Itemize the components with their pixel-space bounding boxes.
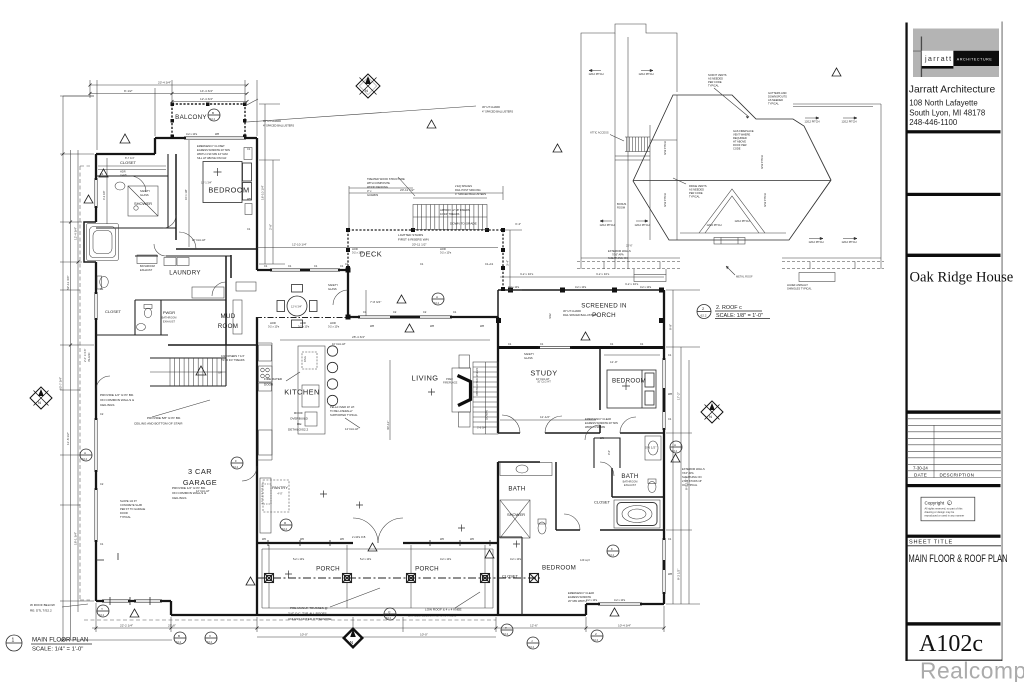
svg-text:62.2: 62.2 [207,640,213,644]
svg-text:CEILINGS: CEILINGS [172,496,186,500]
svg-text:3-2 x 10's: 3-2 x 10's [186,132,198,136]
svg-text:25'-8": 25'-8" [168,624,176,628]
svg-text:22'-2 1/4": 22'-2 1/4" [120,624,133,628]
svg-text:SHOWER: SHOWER [507,512,525,517]
svg-text:2 x10's O.B: 2 x10's O.B [352,535,366,539]
svg-text:PER CODE: PER CODE [708,80,722,84]
svg-text:SHEATHING ON: SHEATHING ON [608,256,628,260]
svg-text:FIRST 6 RISERS W/N: FIRST 6 RISERS W/N [398,238,429,242]
fireplace [443,355,471,427]
svg-text:C1: C1 [247,227,251,231]
svg-text:20'-11 1/2": 20'-11 1/2" [412,243,427,247]
roof outer boundary left block [581,24,881,269]
circled ref 2 bottom right [591,630,603,642]
svg-text:PROVIDE 1/2" GYP. BD.: PROVIDE 1/2" GYP. BD. [100,393,134,397]
svg-text:T: T [505,626,507,630]
roof note: bonus room [617,202,626,210]
top dimension stack [90,80,257,150]
svg-text:EMERGENCY CLOSET: EMERGENCY CLOSET [197,144,225,148]
svg-text:TYPICAL: TYPICAL [689,195,700,199]
screened porch top dims [500,276,664,278]
svg-text:SCREENED IN: SCREENED IN [581,303,627,310]
svg-text:PREF: PREF [446,377,453,381]
svg-text:HOR: HOR [352,247,358,251]
svg-text:RE: DTL T/S2.2: RE: DTL T/S2.2 [30,609,52,613]
logo horizontal rule [913,50,922,53]
circled ref T bottom right [501,624,513,636]
svg-text:3-2 x 10's: 3-2 x 10's [328,325,340,329]
powder fixtures [144,308,151,318]
svg-text:3-2 x 10's: 3-2 x 10's [575,285,587,289]
wall: powder left [135,300,161,335]
svg-text:C1: C1 [610,342,614,346]
north arrow right [701,401,723,423]
svg-text:WITH COMPOSITE: WITH COMPOSITE [367,181,390,185]
svg-text:3'-6 3/4": 3'-6 3/4" [477,426,487,430]
revision table [908,419,1001,478]
svg-text:W6: W6 [300,537,304,541]
nook round table [277,285,317,328]
svg-text:12/12 PITCH: 12/12 PITCH [600,223,615,227]
svg-text:EMERGENCY CLEAR: EMERGENCY CLEAR [568,591,594,595]
north arrow bottom [342,627,364,649]
svg-text:PELLA OVER 10' HT.: PELLA OVER 10' HT. [330,405,355,409]
wall: hall south wall study block [498,432,664,434]
svg-text:36" HT GUARD: 36" HT GUARD [482,105,500,109]
svg-text:CEILINGS: CEILINGS [100,403,114,407]
wall: bedroom block top [155,137,257,139]
circled ref Y bottomleft [97,605,109,617]
svg-text:GUARDS: GUARDS [367,193,378,197]
svg-text:3'-4": 3'-4" [515,222,521,226]
wall: laundry mud divider [226,255,231,345]
svg-text:EGRESS WINDOW 20" MIN: EGRESS WINDOW 20" MIN [585,421,618,425]
svg-text:SAFETY: SAFETY [524,352,534,356]
balcony posts [171,103,247,139]
wall: living bottom wall [257,542,498,544]
circled ref A right [670,441,682,453]
svg-text:C1: C1 [100,542,104,546]
logo white jarratt box [922,51,954,66]
wall: stairwell top [168,344,257,346]
study dims [500,419,596,421]
svg-text:C2: C2 [100,482,104,486]
svg-text:PORCH: PORCH [415,566,439,573]
svg-text:SHEET TITLE: SHEET TITLE [909,540,953,546]
svg-text:W8: W8 [668,392,672,396]
svg-text:HI-DEF ASPHALT: HI-DEF ASPHALT [787,283,808,287]
svg-text:C1: C1 [668,537,672,541]
svg-text:TO BE LATERALLY: TO BE LATERALLY [330,409,353,413]
svg-text:GLASS: GLASS [140,193,149,197]
svg-text:10' CLG HT: 10' CLG HT [192,238,206,242]
svg-text:23'-4 3/4": 23'-4 3/4" [158,81,171,85]
svg-text:2'-6": 2'-6" [269,224,273,230]
svg-text:jarratt: jarratt [924,54,952,63]
roof note: exterior walls [608,249,631,260]
svg-text:12/12 PITCH: 12/12 PITCH [842,240,857,244]
roof eave detail rects [581,258,881,282]
svg-text:SUPPORTED TYPICAL: SUPPORTED TYPICAL [330,413,358,417]
svg-text:C1: C1 [314,264,318,268]
svg-text:2 EQ SPACES: 2 EQ SPACES [455,184,472,188]
svg-text:DETAILO/S2.2: DETAILO/S2.2 [288,428,309,432]
toilet top-left [100,277,109,288]
svg-text:W6: W6 [440,537,444,541]
right bath toilet [538,522,546,534]
wall: bedroom block left step [96,138,155,154]
svg-text:W8: W8 [668,572,672,576]
svg-text:LOW ROOF & 4 x 4 KNEE: LOW ROOF & 4 x 4 KNEE [425,608,462,612]
svg-text:3'-4": 3'-4" [506,260,510,266]
svg-text:ATTIC ACCESS: ATTIC ACCESS [590,131,609,135]
svg-text:B: B [178,634,180,638]
svg-text:Oak Ridge House: Oak Ridge House [910,270,1014,286]
svg-text:7/16" APA: 7/16" APA [612,253,624,257]
wall: living top wall [348,316,498,318]
deck dashed boundary [348,230,503,291]
deck stairs [349,188,487,230]
svg-text:3-2 x 10's: 3-2 x 10's [508,285,520,289]
svg-text:VENT WHERE: VENT WHERE [733,133,751,137]
svg-text:18'-1 3/4": 18'-1 3/4" [74,532,78,545]
svg-text:C1: C1 [363,310,367,314]
circled ref J bottom right [527,637,539,649]
plus marks [285,389,520,578]
svg-text:TYPICAL: TYPICAL [708,84,719,88]
svg-text:REQUIRED: REQUIRED [733,136,747,140]
svg-text:3 CAR: 3 CAR [188,467,212,476]
leader lines for notes [62,177,480,608]
svg-text:EXHAUST: EXHAUST [163,320,176,324]
svg-text:C1: C1 [100,287,104,291]
svg-text:N: N [365,88,368,93]
porch inner lines [262,549,493,608]
roof misc ticks [604,262,855,275]
svg-text:RAIL POST SPACING: RAIL POST SPACING [455,188,481,192]
svg-text:C1: C1 [288,264,292,268]
svg-text:62.2: 62.2 [82,457,88,461]
svg-text:PER FT TO GARAGE: PER FT TO GARAGE [120,507,145,511]
svg-text:248-446-1100: 248-446-1100 [909,118,958,127]
svg-text:52'-11 3/4": 52'-11 3/4" [66,275,70,290]
svg-text:SLOPE 1/4 FT: SLOPE 1/4 FT [120,499,137,503]
svg-text:DESCRIPTION: DESCRIPTION [940,472,975,477]
svg-text:12'-6": 12'-6" [530,624,538,628]
svg-text:N: N [38,400,41,405]
wall: house left wall [95,154,97,601]
bottom dimension lines [92,603,664,637]
svg-text:CEILING AND BOTTOM OF STAIR: CEILING AND BOTTOM OF STAIR [134,422,183,426]
svg-text:F: F [235,459,237,463]
svg-text:12'-4 3/4": 12'-4 3/4" [200,97,213,101]
svg-text:TR 10 3/4" TREADS: TR 10 3/4" TREADS [221,358,245,362]
svg-text:ARCHITECTURE: ARCHITECTURE [957,58,993,62]
circled ref F living [607,545,619,557]
svg-text:EMERGENCY CLEAR: EMERGENCY CLEAR [585,417,611,421]
nook corner posts [346,268,351,273]
svg-text:MAIN FLOOR & ROOF PLAN: MAIN FLOOR & ROOF PLAN [909,553,1008,565]
svg-text:DOWN: DOWN [485,410,489,420]
svg-text:GUTTERS AND: GUTTERS AND [768,91,787,95]
bed right bedroom [607,370,656,408]
svg-text:2'-0" O.C. TYP. ALL ROOFS: 2'-0" O.C. TYP. ALL ROOFS [288,612,327,616]
svg-text:11'-0": 11'-0" [610,360,618,364]
bedroom block right dims [259,104,285,264]
porch post verticals [269,545,485,608]
svg-text:PRE-MANUF TRUSSES @: PRE-MANUF TRUSSES @ [290,606,328,610]
svg-text:HDR: HDR [120,170,126,174]
wall: bedroom bottom north wall [556,529,664,531]
svg-text:C1+C1: C1+C1 [485,262,494,266]
svg-text:10' CLG HT: 10' CLG HT [332,342,346,346]
wall: suite bottom [96,334,168,336]
north arrow left [30,387,52,409]
svg-text:TYPICAL: TYPICAL [768,102,779,106]
svg-text:BALCONY: BALCONY [175,114,207,121]
logo black underbar [922,66,954,69]
svg-text:10'-0": 10'-0" [420,633,428,637]
svg-text:12' CLG HT: 12' CLG HT [196,489,210,493]
svg-text:7-30-24: 7-30-24 [913,465,928,470]
doors: arcs [96,176,636,543]
svg-text:ON COMMON WALLS &: ON COMMON WALLS & [100,398,135,402]
svg-text:4" SPACED BALLUSTERS: 4" SPACED BALLUSTERS [482,110,513,114]
wall: kitchen-garage wall [256,317,258,543]
svg-text:10'-0": 10'-0" [300,633,308,637]
tub left bay [87,224,119,261]
svg-text:129 sq ft: 129 sq ft [580,558,590,562]
roof note: gas fireplace [733,129,754,151]
svg-text:12/12 PITCH: 12/12 PITCH [707,223,722,227]
svg-text:62.2: 62.2 [701,314,707,318]
svg-text:3" x: 3" x [367,189,372,193]
svg-text:C2: C2 [100,412,104,416]
logo gray field [913,29,999,78]
svg-text:EXHAUST: EXHAUST [140,268,153,272]
svg-text:12'-1 3/4": 12'-1 3/4" [201,181,212,185]
svg-text:2,6 X STUDS 16": 2,6 X STUDS 16" [682,479,702,483]
svg-text:SAFETY: SAFETY [140,189,150,193]
wall: powder top [135,299,226,301]
svg-text:C1: C1 [100,172,104,176]
wall: study north thick wall [498,346,664,349]
svg-text:South Lyon, MI 48178: South Lyon, MI 48178 [909,108,985,117]
svg-text:30'-11": 30'-11" [386,421,390,430]
wall: closet divider bottom block [498,537,522,615]
svg-text:8'-8": 8'-8" [669,324,673,330]
svg-text:9/12 PITCH: 9/12 PITCH [663,141,667,155]
screened porch posts [496,288,664,324]
svg-text:FIRE RATED: FIRE RATED [264,377,283,381]
svg-text:CLOSET: CLOSET [120,160,137,165]
svg-text:3-2 x 10's: 3-2 x 10's [586,598,598,602]
svg-text:MUD: MUD [221,313,236,320]
svg-text:RIDGE VENTS: RIDGE VENTS [689,184,707,188]
svg-text:W8: W8 [215,132,219,136]
svg-text:C1: C1 [247,147,251,151]
svg-text:8'-1/2": 8'-1/2" [124,89,133,93]
svg-text:W ROOF BELOW: W ROOF BELOW [30,603,55,607]
kitchen stools [327,346,337,406]
stairs center hall [473,362,498,434]
garage bottom wall ticks [96,553,150,605]
mid bath vanity [645,436,661,460]
svg-text:28'-4 3/4": 28'-4 3/4" [352,335,365,339]
svg-text:PORCH: PORCH [316,566,340,573]
svg-text:BEDROOM: BEDROOM [612,378,646,385]
wall: nook right wall [347,270,349,317]
deck posts [346,228,505,291]
svg-text:2-4x8: 2-4x8 [120,173,127,177]
svg-text:62.2: 62.2 [210,117,216,121]
svg-text:62.2: 62.2 [176,640,182,644]
svg-text:11'-8 1/2": 11'-8 1/2" [66,432,70,445]
svg-text:C1: C1 [540,342,544,346]
svg-text:W8: W8 [430,324,434,328]
svg-text:12/12 PITCH: 12/12 PITCH [805,120,820,124]
svg-text:1: 1 [12,638,15,644]
svg-text:2. ROOF c: 2. ROOF c [716,305,742,311]
circled ref V bottom [205,632,217,644]
svg-text:4" SPACED BALLUSTERS: 4" SPACED BALLUSTERS [263,124,294,128]
svg-text:16'-1 1/8": 16'-1 1/8" [184,189,188,200]
svg-text:DECK: DECK [360,250,382,259]
svg-text:62.2: 62.2 [434,301,440,305]
wall: shower bath top [96,227,176,229]
svg-text:PROVIDE 5/8" GYP. BD.: PROVIDE 5/8" GYP. BD. [147,416,181,420]
title block right border [1001,22,1004,662]
svg-text:12/12 PITCH: 12/12 PITCH [809,240,824,244]
svg-text:Y: Y [101,607,103,611]
roof pitch labels and arrows [548,72,857,319]
svg-text:SHINGLES TYPICAL: SHINGLES TYPICAL [787,287,812,291]
wall: closet/hall divider [167,154,169,228]
svg-text:Jarratt Architecture: Jarratt Architecture [909,85,996,96]
svg-text:4'-3 1/8": 4'-3 1/8" [102,190,106,200]
svg-text:WIDTH 4 SF MIN 44" MAX: WIDTH 4 SF MIN 44" MAX [197,152,228,156]
wall: screened porch top [498,289,664,291]
circled ref Q porch [384,608,396,620]
sink oval hall [115,182,125,190]
svg-text:PANTRY: PANTRY [272,485,288,490]
wall: bedroom west wall [175,154,177,240]
svg-text:BEDROOM: BEDROOM [542,565,576,572]
svg-text:W6: W6 [340,537,344,541]
svg-text:ROOF PER: ROOF PER [733,143,747,147]
svg-text:CONCRETE SLAB: CONCRETE SLAB [120,503,142,507]
svg-text:22'-6": 22'-6" [626,244,633,248]
svg-text:BATH: BATH [621,473,638,480]
svg-text:METAL ROOF: METAL ROOF [736,275,753,279]
svg-text:9/12 PITCH: 9/12 PITCH [663,193,667,207]
svg-text:C1: C1 [420,262,424,266]
svg-text:Realcomp: Realcomp [920,658,1024,682]
svg-text:7/16" APA: 7/16" APA [682,471,694,475]
wall: bottom strip porch/closet [171,604,664,615]
svg-text:3-2 x 10's: 3-2 x 10's [352,251,364,255]
circled ref B bottom [174,632,186,644]
svg-text:PWDR: PWDR [163,310,175,315]
svg-text:F: F [611,547,613,551]
svg-text:7'-8 3/4": 7'-8 3/4" [370,300,381,304]
svg-text:62.2: 62.2 [593,638,599,642]
svg-text:RNG: RNG [303,356,307,362]
wall: bedroom right wall [256,138,258,270]
garage door panels [104,600,160,603]
svg-text:TYPICAL: TYPICAL [120,515,131,519]
svg-text:62.2: 62.2 [609,553,615,557]
svg-text:16'-10 1/4": 16'-10 1/4" [261,185,265,200]
svg-text:OBSTRUCTED RISERS: OBSTRUCTED RISERS [475,367,479,396]
svg-text:C1: C1 [453,310,457,314]
svg-text:C2: C2 [423,310,427,314]
svg-text:WOOD DECKING: WOOD DECKING [367,185,388,189]
svg-text:C2: C2 [393,310,397,314]
right bath vanity [500,463,552,476]
svg-text:C1: C1 [668,353,672,357]
svg-text:W8: W8 [480,324,484,328]
roof dormer triangle [680,189,786,244]
roof note: shingles [787,283,812,291]
svg-text:62.2: 62.2 [99,613,105,617]
svg-text:LAUNDRY: LAUNDRY [169,270,201,277]
svg-text:C1: C1 [345,262,349,266]
svg-text:14'-4 3/4": 14'-4 3/4" [200,89,213,93]
svg-text:3-2 x 10's: 3-2 x 10's [440,557,452,561]
svg-text:drawing or design may be: drawing or design may be [925,510,955,514]
svg-text:8'-2 1/2": 8'-2 1/2" [677,569,681,580]
roof hexagon outline [633,95,831,240]
svg-text:BONUS: BONUS [617,202,626,206]
svg-text:3-2 x 10's: 3-2 x 10's [614,598,626,602]
svg-text:reproduced or used in any mann: reproduced or used in any manner [925,513,965,517]
svg-text:DOOR: DOOR [120,511,128,515]
shower top-left [128,186,158,216]
svg-text:3'-0": 3'-0" [607,450,611,455]
svg-text:FIREPLACE: FIREPLACE [443,381,458,385]
svg-text:EXTERIOR WALLS: EXTERIOR WALLS [608,249,631,253]
right bath shower [500,500,530,538]
svg-text:9/12: 9/12 [548,313,552,319]
svg-text:2'-0" X 3'-6": 2'-0" X 3'-6" [83,348,87,362]
svg-text:12/12 PITCH: 12/12 PITCH [842,120,857,124]
leader to balcony guard note [247,106,476,122]
svg-text:12/12 PITCH: 12/12 PITCH [735,219,750,223]
svg-text:EXTERIOR WALLS: EXTERIOR WALLS [682,467,705,471]
svg-text:BATHROOM: BATHROOM [623,480,638,484]
roof note: soffit vents [708,73,727,88]
svg-text:3-2 x 10's: 3-2 x 10's [298,325,310,329]
svg-text:14' CLG HT: 14' CLG HT [345,427,359,431]
svg-text:2: 2 [595,632,597,636]
svg-text:12'-10 1/4": 12'-10 1/4" [292,243,307,247]
svg-text:KITCHEN: KITCHEN [284,388,320,397]
svg-text:12/12 PITCH: 12/12 PITCH [639,72,654,76]
svg-text:ROOM: ROOM [218,323,238,330]
svg-text:9/12 PITCH: 9/12 PITCH [760,155,764,169]
stairs garage-mud [150,358,226,386]
svg-text:CLOSET: CLOSET [594,500,611,505]
svg-text:C1: C1 [640,342,644,346]
wall: middle bath walls [498,462,664,530]
svg-text:30" HT GUARD: 30" HT GUARD [563,309,581,313]
porch center dash-dot [258,577,540,579]
svg-text:62.2: 62.2 [233,465,239,469]
svg-text:UNLESS NOTED OTHERWISE: UNLESS NOTED OTHERWISE [288,617,332,621]
wall: nook top wall [257,269,348,271]
svg-text:17'-2": 17'-2" [677,392,681,400]
